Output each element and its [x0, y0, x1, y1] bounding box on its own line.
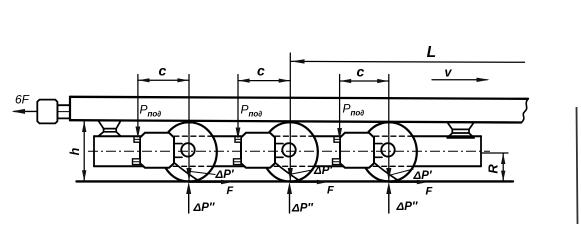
L dimension line — [291, 60, 525, 63]
c3 arrows — [340, 79, 351, 83]
svg-text:F: F — [426, 186, 433, 198]
sleeve housing bottom edge hidden across wheels — [165, 165, 414, 167]
L left arrow — [291, 59, 305, 63]
hanger bracket left — [98, 121, 121, 137]
wheel 3 — [361, 122, 417, 181]
R dimension line — [502, 153, 504, 181]
svg-text:F: F — [327, 185, 334, 197]
clamp 1 fork — [174, 144, 182, 158]
v velocity arrow line — [432, 79, 487, 81]
beam top edge — [70, 97, 528, 99]
clamp 1 ears — [133, 137, 141, 165]
wheel 2 — [262, 122, 318, 181]
dP'3 contact down arrow — [386, 168, 391, 181]
extension line wheel2 center / L left — [289, 53, 291, 181]
c2 arrows — [238, 79, 249, 83]
beam right break line — [521, 99, 528, 123]
coupling neck — [57, 105, 70, 118]
clamp 3 fork — [374, 144, 382, 158]
clamp bodies (white filled, drawn over wheels) — [133, 133, 395, 168]
dP'2 contact down arrow — [288, 168, 293, 181]
dP'1 contact down arrow — [186, 168, 191, 181]
beam left end edge — [69, 97, 71, 120]
svg-text:F: F — [227, 185, 234, 197]
svg-text:ΔP′: ΔP′ — [413, 170, 433, 182]
svg-text:ΔP″: ΔP″ — [193, 202, 215, 214]
svg-text:h: h — [68, 147, 82, 155]
axis centerline — [88, 150, 490, 152]
ground base line — [77, 180, 514, 182]
P3 down arrow — [337, 128, 342, 140]
sleeve housing top edge hidden across wheels — [165, 135, 412, 137]
axle pin 3 — [381, 143, 394, 156]
svg-text:R: R — [486, 164, 501, 174]
svg-text:c: c — [159, 63, 167, 79]
coupling neck centerline — [57, 111, 70, 113]
h dimension line — [83, 121, 85, 181]
svg-text:ΔP′: ΔP′ — [313, 165, 333, 177]
sleeve housing bottom edge (solid between wheels) — [94, 165, 481, 167]
arrowheads — [82, 59, 505, 181]
clamp 3 — [340, 133, 374, 168]
c2 dimension line — [238, 80, 290, 82]
clamp 2 — [241, 133, 275, 168]
svg-text:c: c — [357, 64, 365, 80]
wheel 1 — [161, 122, 217, 181]
svg-text:ΔP″: ΔP″ — [291, 203, 313, 215]
v arrow head — [477, 78, 490, 82]
clamp 2 ears — [234, 137, 242, 165]
axle pin 1 — [181, 143, 194, 156]
sleeve left edge — [93, 136, 95, 166]
beam bottom edge — [70, 120, 521, 122]
axle pin 2 — [282, 143, 295, 156]
F friction arrows on base line — [189, 180, 428, 184]
R bottom arrow — [501, 171, 505, 182]
force 6F arrow — [14, 110, 37, 112]
extension line P2 — [237, 75, 239, 128]
coupling block — [37, 100, 57, 124]
clamp 1 — [140, 133, 174, 168]
clamp 3 ears — [333, 137, 341, 165]
dP'' up arrows — [189, 192, 389, 214]
extension line P3 — [339, 75, 341, 129]
sleeve housing top edge (solid between wheels) — [94, 135, 481, 137]
c1 dimension line — [138, 79, 189, 81]
c1 arrows — [138, 78, 149, 82]
c3 dimension line — [340, 80, 389, 82]
R extension line — [481, 152, 508, 154]
extension line wheel3 center — [388, 75, 390, 182]
wheel 3 back flange curve — [375, 163, 399, 181]
scan artifact line at right edge — [577, 107, 578, 224]
P1 down arrow — [136, 127, 141, 139]
wheel 1 back flange curve — [175, 163, 199, 181]
P2 down arrow — [236, 128, 241, 140]
h bottom arrow — [82, 170, 86, 181]
svg-text:ΔP″: ΔP″ — [396, 201, 418, 213]
clamp 2 fork — [275, 144, 283, 158]
svg-text:ΔP′: ΔP′ — [215, 169, 235, 181]
extension line P1 — [137, 75, 139, 127]
sleeve right edge — [480, 136, 482, 166]
hanger bracket right — [447, 122, 474, 138]
extension line wheel1 center — [188, 75, 190, 182]
svg-text:L: L — [427, 44, 436, 61]
R top arrow — [501, 153, 505, 164]
wheel 2 back flange curve — [276, 163, 300, 181]
svg-text:6F: 6F — [15, 93, 30, 107]
dP' leader lines — [191, 169, 414, 175]
h top arrow — [82, 121, 86, 132]
svg-text:c: c — [257, 63, 265, 79]
svg-text:v: v — [445, 66, 453, 80]
